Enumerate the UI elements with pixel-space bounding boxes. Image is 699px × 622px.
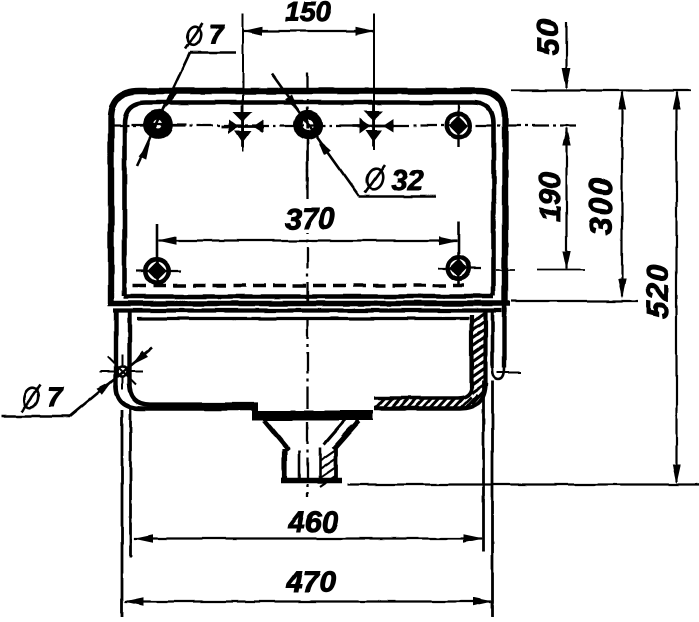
svg-text:50: 50 bbox=[530, 18, 565, 55]
svg-text:470: 470 bbox=[285, 566, 336, 599]
svg-text:32: 32 bbox=[391, 165, 423, 197]
svg-text:300: 300 bbox=[583, 176, 619, 235]
svg-text:370: 370 bbox=[285, 203, 335, 236]
svg-text:7: 7 bbox=[209, 19, 226, 49]
svg-text:520: 520 bbox=[640, 264, 675, 319]
svg-text:150: 150 bbox=[285, 0, 332, 27]
svg-text:190: 190 bbox=[534, 172, 567, 222]
svg-text:460: 460 bbox=[287, 506, 338, 539]
svg-text:7: 7 bbox=[47, 381, 64, 412]
